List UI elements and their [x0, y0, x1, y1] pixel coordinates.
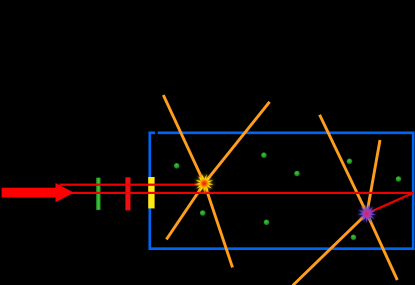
green dot 2	[261, 152, 267, 158]
beam arrow shaft	[2, 188, 56, 198]
red track from vertex 2 to right wall	[367, 193, 413, 214]
green dot 8	[351, 235, 357, 241]
counter S2 (red bar)	[125, 177, 130, 210]
counter S3 (yellow bar)	[148, 177, 154, 208]
vertex 2 glow	[356, 203, 377, 224]
lower beam line (through chamber to right wall)	[60, 192, 414, 194]
track 7 from vertex 2 (long down-left, exits bottom)	[293, 214, 367, 285]
green dot 5	[396, 176, 402, 182]
track 3 from vertex 1 (down-left)	[166, 183, 204, 239]
track 8 from vertex 2 (down-right)	[367, 214, 397, 281]
track 6 from vertex 2 (steep up-right)	[367, 140, 380, 214]
track 2 from vertex 1 (up-right)	[204, 102, 269, 184]
track 1 from vertex 1 (up-left)	[163, 95, 204, 183]
chamber outline (blue rectangle)	[150, 133, 413, 249]
green dot 3	[294, 171, 300, 177]
green dot 6	[200, 210, 206, 216]
track 4 from vertex 1 (steep down-right)	[204, 183, 232, 267]
green dot 1	[174, 163, 180, 169]
upper beam line (into vertex 1)	[60, 184, 205, 186]
beam arrow head	[56, 183, 74, 202]
vertex 2 star (purple burst)	[358, 205, 376, 223]
vertex 1 star (orange/yellow burst)	[195, 174, 213, 192]
gap in top edge of chamber outline	[155, 131, 158, 135]
vertex 1 glow	[193, 173, 215, 195]
green dot 7	[264, 220, 270, 226]
green dot 4	[347, 159, 353, 165]
counter S1 (green bar)	[96, 178, 100, 210]
track 5 from vertex 2 (up-left)	[320, 115, 367, 214]
